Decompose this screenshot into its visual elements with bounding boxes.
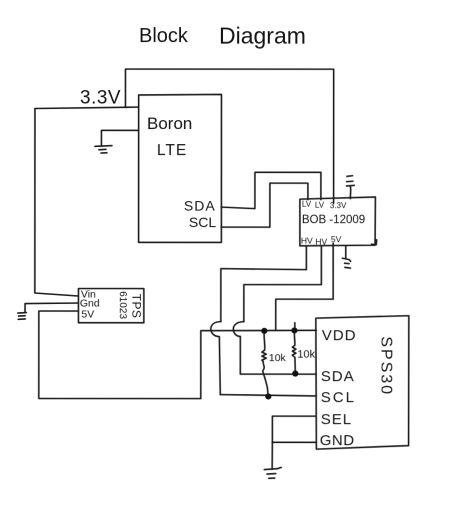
svg-text:5V: 5V [331, 234, 342, 244]
svg-text:SCL: SCL [189, 214, 216, 230]
svg-text:SEL: SEL [321, 411, 352, 428]
svg-text:3.3V: 3.3V [80, 88, 121, 109]
svg-text:GND: GND [320, 432, 355, 449]
svg-text:10k: 10k [269, 352, 287, 364]
svg-text:61023: 61023 [117, 291, 128, 319]
svg-text:HV: HV [315, 237, 327, 247]
svg-text:SDA: SDA [184, 198, 216, 214]
svg-text:5V: 5V [81, 309, 94, 321]
svg-text:LTE: LTE [157, 142, 187, 159]
svg-text:10k: 10k [297, 349, 315, 361]
svg-text:HV: HV [301, 236, 313, 246]
svg-text:3.3V: 3.3V [330, 201, 347, 210]
svg-text:TPS: TPS [129, 294, 143, 319]
svg-text:SCL: SCL [321, 389, 356, 406]
svg-text:VDD: VDD [322, 327, 357, 344]
svg-text:LV: LV [302, 200, 312, 209]
svg-text:SDA: SDA [321, 368, 355, 385]
svg-text:Diagram: Diagram [219, 23, 306, 49]
svg-text:BOB -12009: BOB -12009 [302, 214, 365, 226]
svg-text:LV: LV [315, 201, 325, 210]
svg-text:SPS30: SPS30 [377, 336, 394, 396]
svg-text:Boron: Boron [147, 114, 192, 133]
svg-text:Block: Block [139, 25, 189, 47]
